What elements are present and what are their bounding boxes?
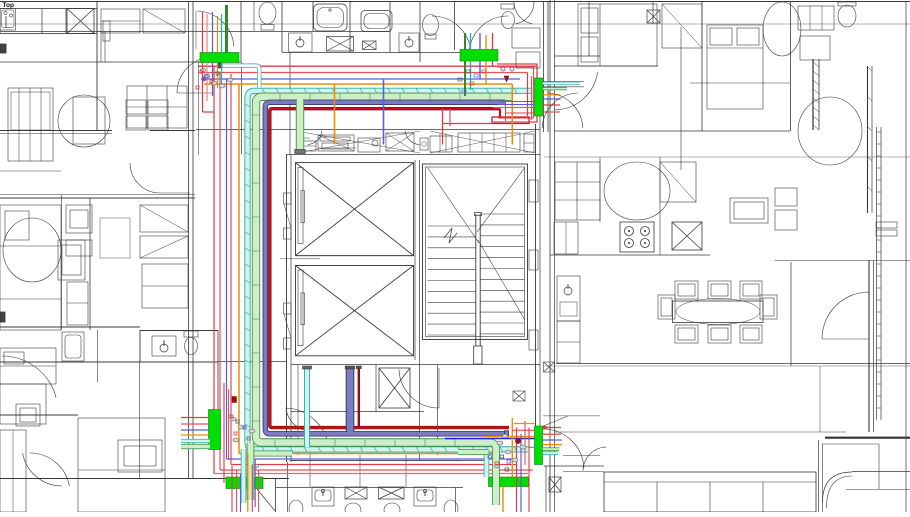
stair stringer [475,214,477,350]
pipe red box outline [492,117,529,124]
fixture sink top2 [399,33,419,52]
fixture bathtub 1 [314,4,348,31]
furniture wardrobe D [0,430,26,512]
elevator A jamb [284,193,292,204]
wall core right [535,124,537,426]
pipe orange link R2 [514,423,535,425]
furniture chair left [658,295,675,319]
equipment diag brace 2 [430,131,535,153]
wall right edge [905,2,907,512]
furniture sofa front right [852,471,910,473]
pipe orange drop BL [247,454,249,513]
furniture kitchen counter low [557,321,580,363]
pipe red riser TM2 [531,76,533,120]
pipe red drop BL3 [251,465,253,513]
wall v bath C right [139,362,141,478]
equipment diag brace [296,131,420,153]
furniture wardrobe [140,205,188,232]
furniture dining table [673,301,764,323]
fixture ceiling fan [3,218,61,282]
elevator shaft B [296,266,414,356]
pipe red vert BL1 [223,383,225,483]
door arc double left [432,16,471,52]
fixture xbox small tr [647,10,660,23]
equipment rack [458,133,520,152]
fitting red box BL [232,397,237,403]
pipe green drop TM [464,33,466,50]
svg-text:Top: Top [3,2,14,9]
wall between elevators [296,255,414,257]
wall v corridor2 [547,2,549,132]
fixture toilet bottom1 [289,500,303,517]
furniture pillows bed2 [710,28,732,45]
stair break line [444,228,457,243]
furniture small B2 [66,240,92,256]
wall v [275,478,277,512]
pipe orange mid riser [334,84,336,145]
wall v [281,2,283,52]
pipe blue below TM [479,61,481,79]
furniture small right1 [775,188,797,206]
wall counter divider [65,9,67,34]
pipe blue top [201,78,520,80]
fixture sink kitchen [0,9,16,31]
wall h sink counter [282,52,460,54]
pipe red header stair [443,123,493,125]
furniture closet tr [662,4,702,48]
pipe red vert BM3 [528,428,530,512]
wall v [240,2,242,62]
wall h room B top [0,197,195,199]
pipe blue below TL [212,63,214,97]
fixture plant ellipse [763,2,801,56]
pipe salmon below TL [206,63,208,102]
wall core bottom rooms [291,364,540,366]
pipe blue drop TM [479,33,481,50]
room below core xbox [379,368,410,408]
stub blue right R2 [543,439,562,441]
pipe slate riser bottom [346,368,355,432]
pipe blue feeder R1 [498,104,535,106]
pipe blue drop BL2 [254,459,256,507]
equipment rect 4 [386,133,414,151]
door arc tr1 [516,2,534,24]
duct green drop machine room [296,99,304,150]
pipe red feeder R1b [493,107,535,109]
furniture chair t1 [675,281,698,299]
furniture chair right [760,295,777,319]
wall core left [286,155,288,462]
fitting gray valves BM [497,441,503,445]
furniture sofa bottom [604,472,816,512]
wall diag bottom [257,489,275,511]
pipe red drop BL1 [231,466,233,512]
furniture kitchen shelves [555,162,600,220]
furniture bed2 [707,25,763,109]
fixture sink top1 [289,33,313,52]
guide line upper [0,23,910,25]
pipe blue left riser [226,79,228,459]
stub blue right of R1 [543,98,561,100]
pipe orange left riser [238,84,240,454]
wall h room D top [0,414,78,416]
pipe orange top [204,83,512,85]
furniture chair b1 [675,325,698,343]
wall h bed tr bottom [554,65,658,67]
furniture bed C2 [0,348,56,384]
wall v bottom baths right [455,487,457,512]
wall v main right [549,0,551,512]
pipe red main run [270,109,509,428]
wall v bottom baths [287,462,289,512]
furniture cabinet tr [798,6,834,30]
elevator B rail [298,270,303,346]
fixture shaft xbox [67,9,94,34]
wall h mid left [0,133,112,135]
pipe red bottom 1 [231,464,517,466]
furniture bed tr [578,4,657,66]
door arc right of R2 [544,429,584,468]
door arc corridor below core b [286,408,310,431]
wall bathroom C top [140,330,218,332]
pipe blue drop BL [240,474,242,513]
fixture xbox bottom right [549,477,561,492]
furniture sofa room A [127,86,187,128]
wall h sofa top [544,465,604,467]
furniture bed room D [78,418,165,512]
wall v below core divider b [359,455,361,487]
furniture cabinet [103,21,110,41]
pipe pink bottom [214,473,528,475]
furniture pillows tr [581,8,598,33]
door arc room C [2,356,56,398]
stub orange right of R1 [543,94,561,96]
equipment rect 3 [358,138,380,152]
pipe blue bottom [227,458,515,460]
pipe blue drop TL [212,12,214,53]
stair diagonal 3 [478,240,525,320]
pipe red top 1 [198,65,537,67]
furniture wardrobe2 [140,236,188,258]
stub blue left L [181,429,209,431]
wall v left mid [97,330,99,382]
wall corridor right of R1 [543,81,584,83]
pipe red risers stair [442,109,444,145]
equipment extra b [420,138,428,150]
fixture balcony marks [876,222,897,228]
pipe red left riser 1 [213,66,215,473]
wall v core bottom [297,365,299,455]
furniture cabinet tr2 [800,36,830,60]
pipe orange feeder R2 [483,436,535,438]
fixture sink bottom2 [414,487,436,506]
furniture bed room C [0,384,46,424]
duct green tail BM [458,449,488,455]
furniture chair b2 [708,325,731,343]
fixture toilet tr small [502,12,515,29]
wall v room divider [89,198,91,330]
wall v mid [790,262,792,366]
pipe red loop a [493,64,537,122]
wall h under bed2 [690,82,790,84]
fixture toilet tr [838,5,856,27]
equipment extra c [439,133,441,152]
door arc right of R2 b [583,447,606,471]
furniture cabinet2 [143,9,185,33]
pipe orange vert BM [511,418,513,477]
wall v below core divider c [405,455,407,487]
wall v dining [819,366,821,432]
pipe red feeder R1c [505,112,535,114]
pipe red vert R1 [505,102,507,122]
pipe slate end cap [505,431,509,437]
duct green joint seams [279,94,281,100]
furniture tallboy [62,332,84,361]
wall h kitchen [550,254,710,256]
riser box bottom-left [226,477,263,489]
riser box right bottom [535,426,543,465]
fixture toilet top1 [259,2,276,24]
fixture toilet bottom2 [345,503,361,517]
furniture sofa back right [822,443,879,445]
door arc corridor below core a [286,408,329,451]
fitting gray valves BL [230,417,236,421]
stair treads right [480,213,525,215]
wall thick right lower [868,260,870,432]
duct green drop BL [247,443,255,501]
furniture nightstand [58,240,85,280]
wall thick bottom right [825,437,910,439]
door arc double right [469,16,508,52]
duct green main run [256,97,513,443]
equipment extra a [320,137,350,141]
furniture round table [58,95,110,147]
door arc right of R1 b [547,93,583,128]
wall v bottom [545,466,547,512]
wall core right inner [539,116,541,430]
furniture kitchen sink counter [557,276,580,321]
wall v [419,2,421,62]
fixture plant ellipse kitchen [604,162,670,220]
fitting valves BM [500,455,504,458]
wall h dining bottom [556,363,910,365]
elevator shaft A [296,163,414,256]
guide line right mid [544,156,910,158]
pipe red drop TL [202,12,204,53]
wall thick right upper [867,66,869,213]
stub red left L1 [181,417,209,419]
stub orange left L [181,434,209,436]
stub teal duct right R2 [543,451,558,455]
wall h corridor below core [218,361,286,363]
furniture cabinet tr3 [512,28,540,48]
wall h bottom baths [276,487,463,489]
door arc right of R1 a [542,93,578,128]
pipe red link R2 [512,429,535,431]
fixture shaft xbox kitchen [672,222,702,250]
wall v [652,2,654,24]
fixture xbox corridor b [513,391,525,401]
pipe red left riser 3 [230,74,232,465]
guide line right lower [544,365,910,367]
equipment extra d [524,134,534,152]
wall h left mid2 [0,170,61,172]
fixture sink bottom1 [312,487,334,506]
wall v kitchen [659,157,661,255]
stub red right R2 [543,427,561,429]
pipe blue feeder R2 [445,438,535,440]
wall v stair bottom [437,365,439,455]
fitting valves TM [501,67,505,71]
pipe orange vert BM2 [502,487,504,513]
fixture dark mark left edge 2 [0,312,5,322]
furniture cabinet k2 [660,162,696,202]
duct green drop BM [490,443,496,506]
duct green tail BL [246,451,292,457]
equipment rect 2 [318,135,354,151]
stair newel [474,346,482,364]
furniture bed room B [0,205,61,330]
wall v [454,2,456,50]
riser box top-left [200,53,239,63]
fixture dark mark left edge [0,44,6,53]
wall dark segment tr [812,59,814,130]
stair diagonal 1 [428,168,479,243]
stub green duct left L [181,444,210,449]
pipe red loop b [497,67,534,118]
wall h room C [0,326,140,328]
wall v bed2 living [680,27,682,170]
duct teal elbow top [222,66,260,88]
fixture xbox corridor a [544,362,555,372]
furniture island right [730,198,768,223]
stair outer wall [423,164,528,340]
fixture toilet top2 [423,15,439,36]
pipe orange drop TM [485,35,487,50]
fixture bathtub 2 [361,11,392,32]
wall h bottom left [0,478,289,480]
pipe red below TL [202,63,204,113]
stub red2 right R2 [543,433,561,435]
furniture small B3 [67,282,88,325]
wall top room divider [0,31,390,33]
duct teal stub BM [528,446,543,448]
wall h bed2 [554,130,790,132]
pipe green main riser TL [225,5,228,53]
wall vertical left corridor inner [192,2,194,478]
wall h [554,55,600,57]
wall machine band top [196,129,540,131]
wall v below core [375,365,377,412]
furniture table room D [118,440,162,472]
wall h right lower [554,431,846,433]
pipe red vert BM2 [524,421,526,465]
fixture xbox bottom2 [379,487,405,499]
wall h right mid [775,260,910,262]
pipe darkred riser bottom [358,368,360,427]
wall v [588,2,590,56]
duct cyan drop BL [241,449,247,503]
furniture sofa curve [823,472,853,502]
pipe red left riser 2 [219,73,221,471]
wall h room A bottom [0,130,112,132]
wall h above baths [289,460,460,462]
pipe orange below TL [217,63,219,89]
wall balcony ladder [876,127,878,420]
wall h sofa corridor [563,455,600,457]
pipe salmon drop TL [206,14,208,53]
wall top edge [0,1,910,3]
door arc top-left corridor [177,57,213,93]
fixture xbox bottom1 [345,487,367,499]
riser box left [209,410,221,450]
fixture shaft xbox top [327,37,354,52]
wall v main right2 [554,0,556,512]
pipe red vert BL2 [228,389,230,460]
pipe orange drop TL [217,16,219,53]
stub green duct right of R1 [543,87,567,90]
fitting funnel TM [504,76,509,82]
pipe blue vert BM [520,434,522,512]
door arc machine band b [405,131,419,145]
wall v west of risers [198,62,200,155]
stub cyan duct right of R1 [543,82,580,85]
furniture rug [100,218,130,258]
wall vertical [96,2,98,130]
wall core bottom [291,460,489,462]
pipe cyan drop TM [470,33,472,50]
fitting valves TL [200,70,203,73]
wall counter divider [41,9,43,34]
stub palegreen right R2 [543,447,560,451]
stub red left L2 [181,423,209,425]
pipe orange below TM [485,61,487,84]
furniture striped cabinet [8,88,53,161]
wall v [312,2,314,31]
wall v corridor [543,2,545,132]
pipe red main elbow down [499,109,501,118]
wall v bed2 right [790,2,792,131]
stub red2 right of R1 [543,111,560,113]
elevator A rail [298,168,303,244]
wall v corridor core ext [289,52,291,155]
equipment rect 1 [300,141,316,151]
fitting dark red circle [515,438,520,443]
wall core left inner [290,155,292,462]
door arc br [822,292,869,339]
wall stub below counter [100,31,102,62]
riser box top-middle [460,50,498,62]
wall machine band bottom [286,154,540,156]
equipment circle [372,140,378,146]
duct cyan main run [248,91,532,450]
fixture shaft xbox small [363,41,377,50]
furniture pillow [5,211,29,240]
fixture toilet bottom3 [384,503,400,517]
wall v [349,2,351,52]
fitting valves BL [230,415,233,418]
wall h [195,61,241,63]
wall stub [0,61,200,63]
stair inner wall [426,167,525,337]
pipe slate main run [265,102,508,434]
wall bathroom C left [139,330,141,362]
furniture chair t2 [708,281,731,299]
furniture small right2 [775,210,797,230]
pipe red feeder R1a [500,101,535,103]
pipe green below TM [464,61,466,96]
furniture kitchen counter [554,222,578,254]
